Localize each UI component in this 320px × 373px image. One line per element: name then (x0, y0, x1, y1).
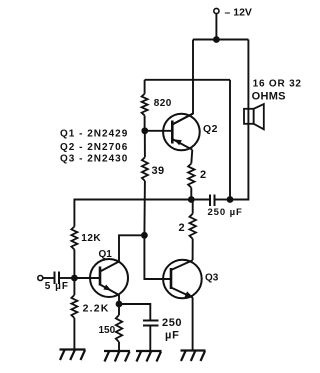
junction dot top rail (213, 36, 220, 43)
transistor Q2 (163, 114, 200, 151)
input terminal (38, 276, 43, 281)
wire Q3 base lead (144, 235, 171, 279)
svg-text:2: 2 (200, 169, 206, 181)
wire Q2 base lead (145, 130, 173, 132)
svg-text:250 µF: 250 µF (208, 207, 243, 218)
wire Q2 emitter down (191, 150, 192, 164)
svg-text:Q2: Q2 (203, 123, 218, 135)
wire rail to Q2 collector (172, 40, 193, 125)
svg-text:Q3 - 2N2430: Q3 - 2N2430 (60, 154, 128, 165)
svg-text:39: 39 (152, 165, 165, 177)
svg-text:Q1: Q1 (99, 249, 113, 260)
wire Q1 base lead (74, 277, 100, 279)
wire top rail (193, 39, 248, 41)
ground under 2.2K (60, 348, 86, 350)
capacitor 250uF bypass (143, 320, 159, 322)
svg-text:5 µF: 5 µF (45, 281, 69, 292)
svg-text:2: 2 (179, 222, 185, 234)
wire Q3 emitter to ground (192, 298, 194, 351)
ground under Q3 (181, 349, 206, 351)
resistor 2 Q3 collector (192, 200, 194, 214)
svg-text:Q2 - 2N2706: Q2 - 2N2706 (60, 142, 128, 153)
wire rail2 drop to cap node (229, 80, 231, 200)
wire Q1 collector (100, 235, 144, 271)
resistor 39 (144, 131, 146, 158)
resistor 820 (144, 80, 146, 94)
svg-text:820: 820 (154, 98, 172, 109)
ground under 150 (104, 350, 130, 352)
power terminal -12V (214, 8, 219, 13)
wire terminal to top rail (215, 14, 217, 40)
wire second rail (145, 79, 230, 81)
resistor 150 (118, 304, 120, 315)
svg-text:OHMS: OHMS (252, 91, 286, 103)
wire speaker branch down (230, 40, 248, 200)
transistor Q1 (90, 259, 128, 297)
resistor 12K (71, 227, 77, 250)
resistor 2.2K (73, 278, 75, 295)
speaker 16 OR 32 OHMS (244, 104, 264, 129)
svg-text:250: 250 (162, 317, 182, 329)
capacitor 250uF coupling (209, 195, 211, 207)
svg-text:2.2K: 2.2K (83, 303, 110, 315)
resistor 2 Q2 emitter (188, 164, 194, 188)
svg-text:12K: 12K (81, 233, 101, 244)
wire feedback rail (74, 200, 191, 227)
capacitor 5uF (54, 272, 56, 285)
svg-text:µF: µF (165, 330, 180, 342)
transistor Q3 (163, 260, 202, 299)
node feedback (188, 196, 195, 203)
node Q2 base (141, 127, 148, 134)
wire to coupling cap (191, 199, 210, 201)
node Q1 base (71, 275, 78, 282)
svg-text:Q3: Q3 (205, 272, 219, 283)
node speaker cap junction (227, 196, 234, 203)
node Q1 collector (141, 232, 148, 239)
svg-text:Q1 - 2N2429: Q1 - 2N2429 (60, 129, 128, 140)
wire emitter to bypass cap (119, 304, 150, 320)
svg-text:150: 150 (99, 325, 116, 336)
svg-text:– 12V: – 12V (225, 7, 252, 19)
svg-text:16 OR 32: 16 OR 32 (253, 78, 302, 89)
ground under bypass cap (136, 350, 162, 352)
node Q1 emitter (116, 301, 123, 308)
wire Q1 emitter down (118, 295, 120, 304)
